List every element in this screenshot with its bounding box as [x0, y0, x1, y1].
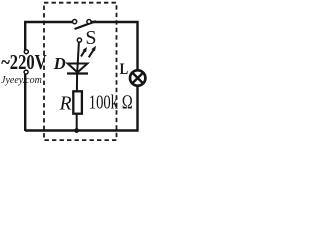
svg-text:100k Ω: 100k Ω — [89, 92, 133, 114]
svg-text:L: L — [120, 61, 129, 78]
svg-text:D: D — [53, 54, 66, 73]
AC source upper terminal — [24, 50, 28, 54]
switch S right contact — [87, 20, 91, 24]
resistor R body — [73, 91, 82, 113]
svg-text:Jyeey.com: Jyeey.com — [1, 75, 42, 86]
wire: bottom-left corner up to lower source terminal — [24, 74, 26, 131]
AC source lower terminal — [24, 70, 28, 74]
LED D triangle — [68, 64, 88, 73]
wire: LED cathode to resistor — [76, 72, 78, 91]
wire: upper source terminal up left side and along top to switch — [25, 22, 72, 50]
wire: branch contact down to LED anode — [77, 42, 79, 72]
LED light arrow 1 — [81, 47, 87, 56]
wire: lamp down to bottom-right corner and along bottom to left — [25, 86, 137, 131]
svg-text:S: S — [85, 27, 96, 49]
switch S blade — [75, 21, 96, 29]
junction dot at branch / bottom wire — [74, 128, 79, 133]
LED D cathode bar — [67, 72, 88, 74]
wire: switch to top-right corner and down to lamp — [91, 22, 137, 70]
lamp L — [130, 70, 145, 85]
wire: resistor to bottom wire — [76, 114, 78, 131]
branch top contact terminal — [77, 38, 81, 42]
svg-text:R: R — [59, 93, 72, 114]
svg-text:~220V: ~220V — [1, 50, 47, 74]
switch S left contact — [73, 20, 77, 24]
dashed enclosure box — [44, 3, 117, 140]
LED light arrow 2 — [89, 46, 96, 58]
